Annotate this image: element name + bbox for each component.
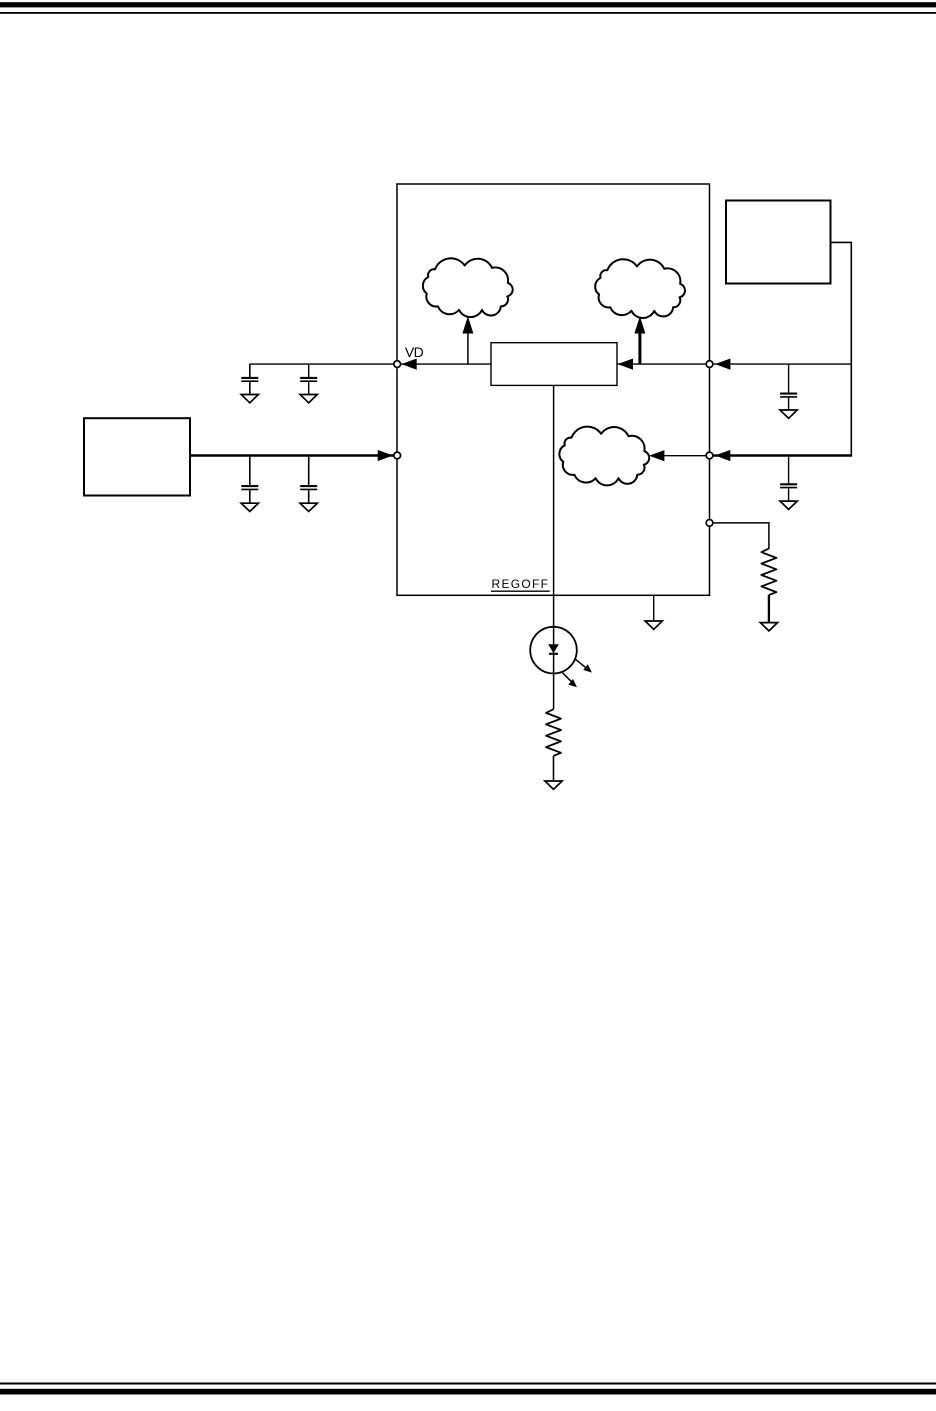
wire VD right (regulator to right bus) [617, 363, 851, 365]
capacitor C1 [249, 364, 251, 377]
regulator block U1a [491, 343, 617, 386]
IC pin wire to resistor R1 [710, 523, 769, 549]
wire bold left (block B2 to IC pin) [190, 454, 395, 457]
LED emission arrow 1 [576, 659, 589, 669]
node at left bold pin [394, 452, 401, 459]
node at VD pin [394, 361, 401, 368]
node at right bold pin [706, 452, 713, 459]
IC U1 outline [397, 184, 710, 595]
wire REGOFF vertical (regulator to LED and resistor) [553, 385, 555, 709]
ground G7 [645, 621, 662, 629]
resistor R2 (LED series) [546, 709, 561, 756]
capacitor C6 [788, 456, 790, 484]
ground G9 [545, 781, 562, 789]
capacitor C2 [308, 364, 310, 377]
capacitor C4 [308, 456, 310, 486]
block B2 (left external block) [84, 418, 190, 495]
ground G1 [241, 395, 258, 403]
cloud 2 [595, 259, 685, 318]
wire bold right (right bus to IC pin) [712, 454, 852, 457]
ground G6 [780, 501, 797, 509]
wire VD net (left thin wire to regulator) [250, 363, 491, 365]
ground G5 [780, 410, 797, 418]
resistor R1 [761, 549, 776, 596]
node at resistor pin [706, 520, 713, 527]
wire arrow up to cloud 1 [467, 333, 469, 365]
LED emission arrow 2 [563, 673, 574, 683]
ground G4 [300, 503, 317, 511]
arrowhead right VD pin (outside, pointing left) [715, 359, 730, 370]
svg-text:VD: VD [405, 344, 424, 360]
ground stub under IC [653, 595, 655, 622]
ground G3 [241, 503, 258, 511]
capacitor C5 [788, 364, 790, 393]
wire cloud 3 to IC pin with arrowhead [662, 455, 710, 457]
svg-text:REGOFF: REGOFF [492, 577, 550, 591]
node at right VD pin [706, 361, 713, 368]
arrowhead at VD node (inside IC, pointing left) [401, 359, 416, 370]
wire from block B1 to right vertical bus [831, 242, 852, 456]
cloud 3 [559, 427, 649, 486]
LED D1 [530, 627, 577, 674]
cloud 1 [423, 258, 513, 317]
wire arrow up to cloud 2 (bold) [638, 333, 641, 365]
arrowhead bold left wire (pointing right into IC pin) [378, 450, 393, 461]
capacitor C3 [249, 456, 251, 486]
block B1 (top-right external block) [726, 201, 831, 284]
arrowhead bold right wire (pointing left into IC pin) [715, 450, 730, 461]
ground G8 [760, 623, 777, 631]
ground G2 [300, 395, 317, 403]
arrowhead into regulator right edge [618, 359, 633, 370]
